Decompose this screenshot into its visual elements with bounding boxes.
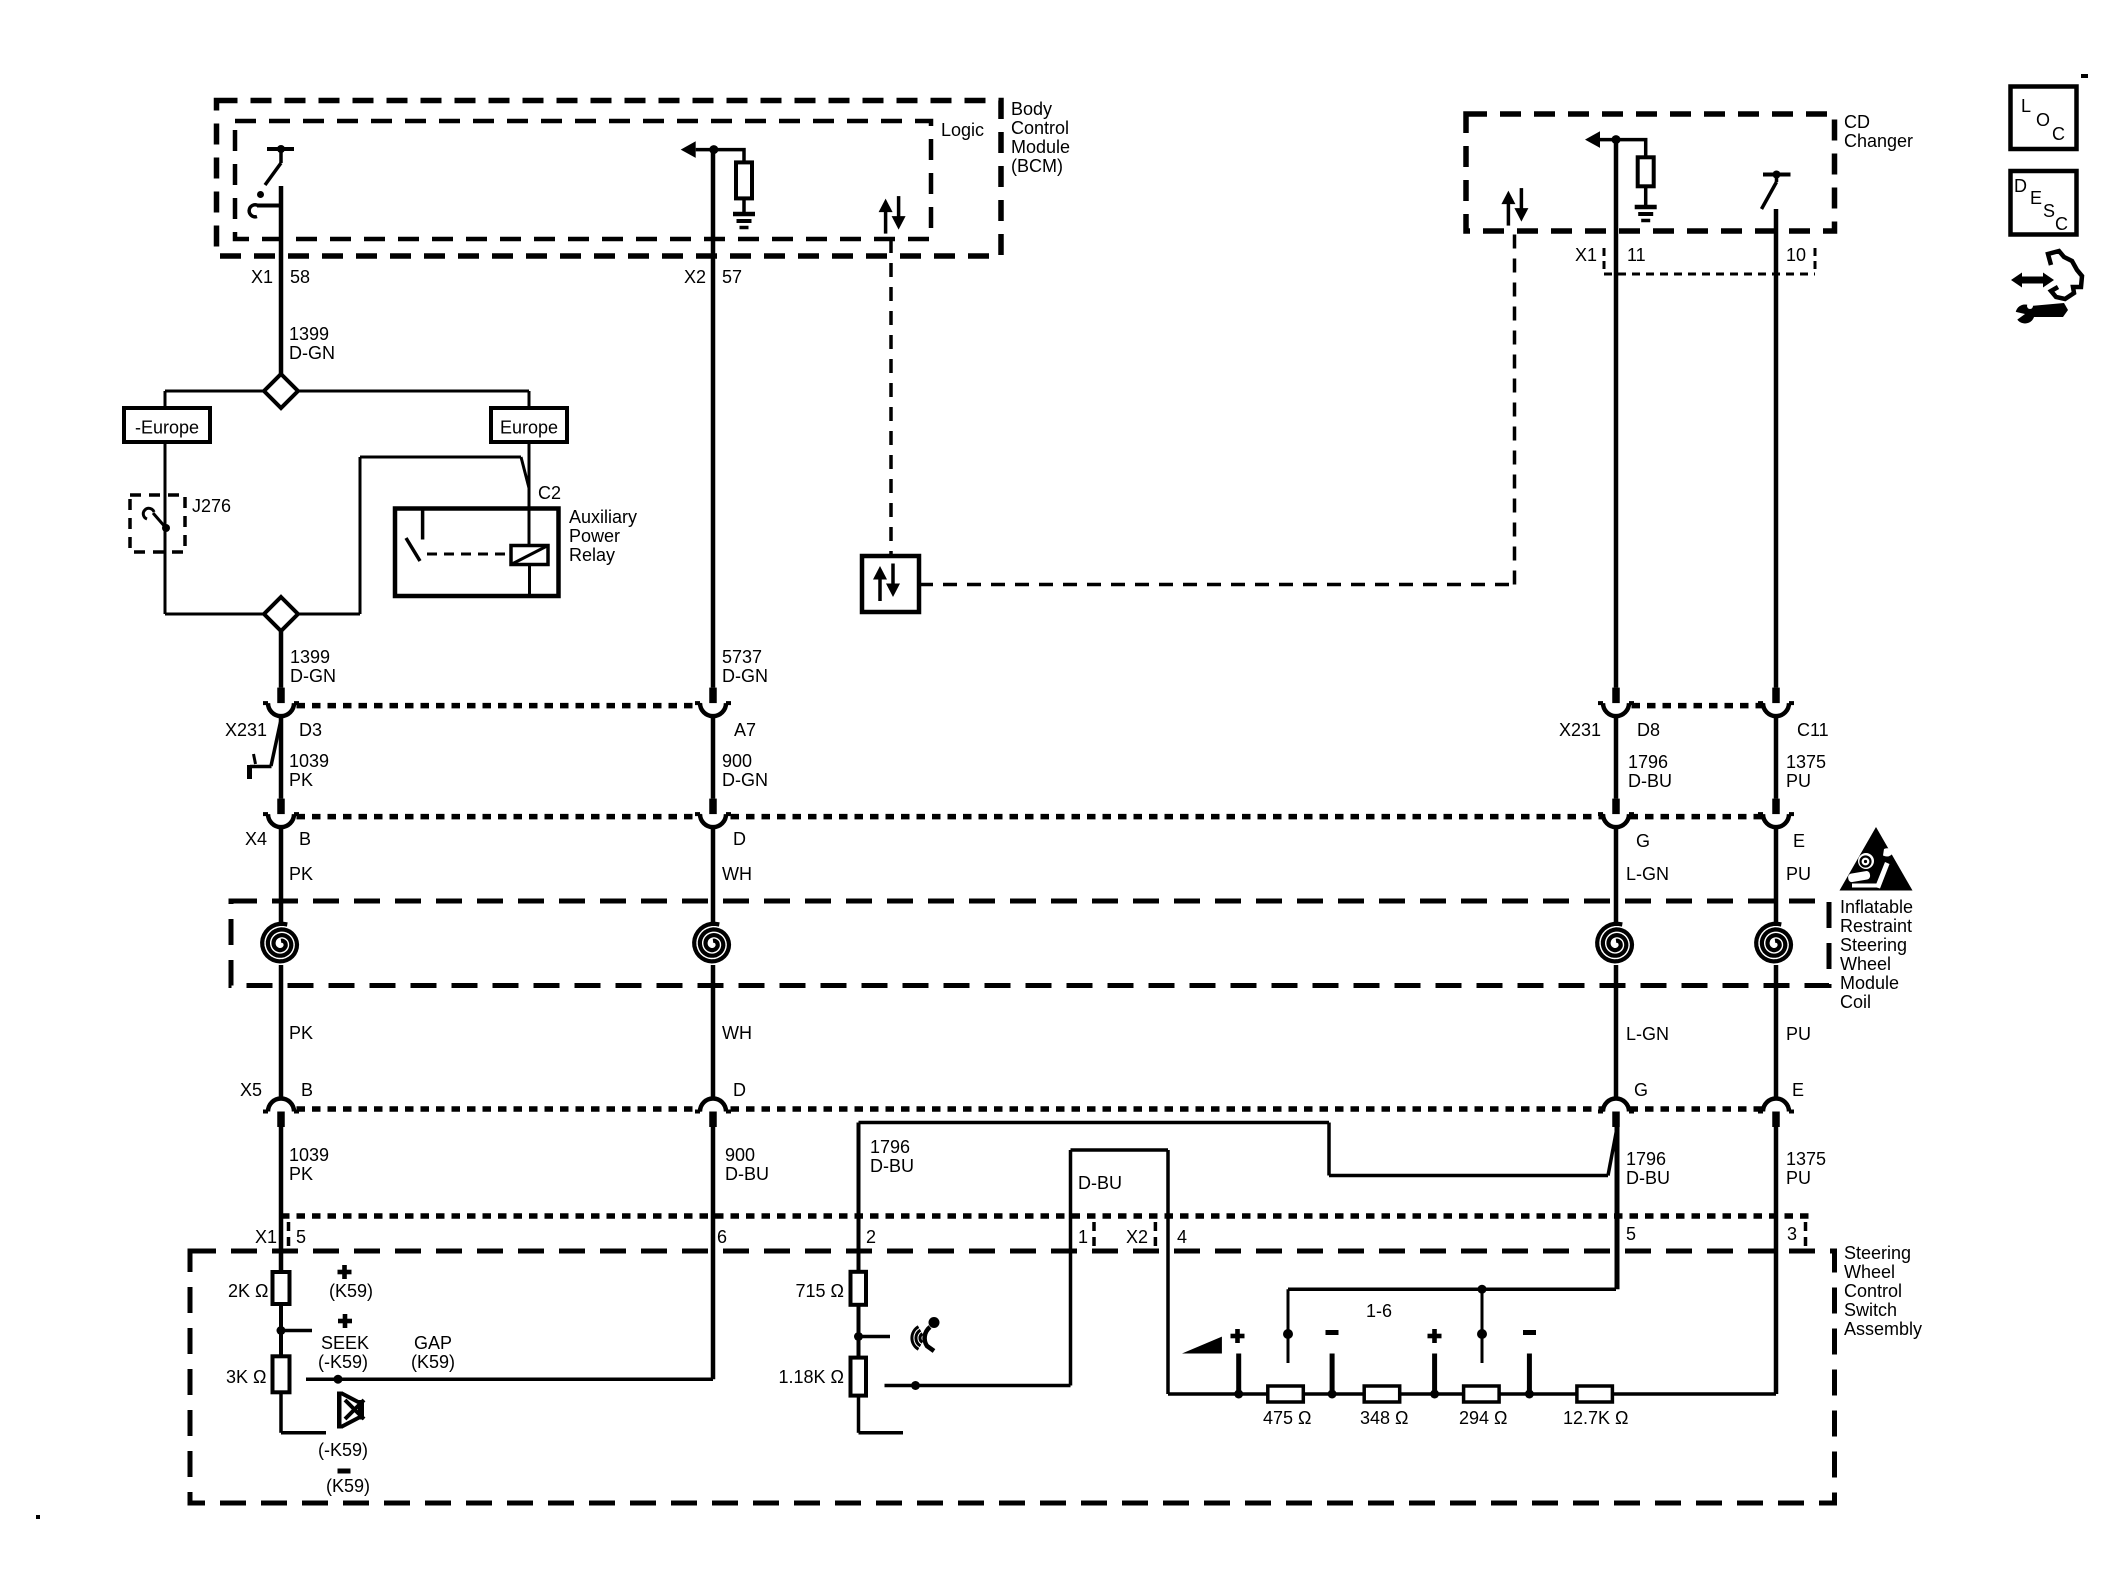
svg-text:(K59): (K59)	[326, 1476, 370, 1496]
svg-text:D-GN: D-GN	[722, 770, 768, 790]
svg-text:PK: PK	[289, 864, 313, 884]
svg-text:E: E	[1792, 1080, 1804, 1100]
svg-text:S: S	[2043, 201, 2055, 221]
svg-text:D-BU: D-BU	[1078, 1173, 1122, 1193]
svg-text:D-GN: D-GN	[289, 343, 335, 363]
svg-text:1399: 1399	[290, 647, 330, 667]
svg-text:L-GN: L-GN	[1626, 1024, 1669, 1044]
svg-text:D-GN: D-GN	[722, 666, 768, 686]
svg-text:Restraint: Restraint	[1840, 916, 1912, 936]
svg-text:5737: 5737	[722, 647, 762, 667]
svg-text:Relay: Relay	[569, 545, 615, 565]
svg-text:Switch: Switch	[1844, 1300, 1897, 1320]
svg-text:PK: PK	[289, 1164, 313, 1184]
svg-text:D-BU: D-BU	[1626, 1168, 1670, 1188]
svg-text:58: 58	[290, 267, 310, 287]
svg-text:12.7K Ω: 12.7K Ω	[1563, 1408, 1629, 1428]
svg-text:G: G	[1634, 1080, 1648, 1100]
svg-text:CD: CD	[1844, 112, 1870, 132]
svg-text:B: B	[301, 1080, 313, 1100]
svg-text:10: 10	[1786, 245, 1806, 265]
svg-text:O: O	[2036, 110, 2050, 130]
svg-text:PU: PU	[1786, 1024, 1811, 1044]
svg-text:D: D	[733, 829, 746, 849]
svg-text:1039: 1039	[289, 1145, 329, 1165]
svg-text:Assembly: Assembly	[1844, 1319, 1922, 1339]
svg-text:(BCM): (BCM)	[1011, 156, 1063, 176]
svg-text:Steering: Steering	[1844, 1243, 1911, 1263]
svg-text:294 Ω: 294 Ω	[1459, 1408, 1508, 1428]
svg-text:Power: Power	[569, 526, 620, 546]
svg-text:1: 1	[1078, 1227, 1088, 1247]
svg-text:C: C	[2055, 214, 2068, 234]
svg-text:5: 5	[1626, 1224, 1636, 1244]
svg-text:-Europe: -Europe	[135, 418, 199, 438]
svg-text:PU: PU	[1786, 864, 1811, 884]
svg-text:1-6: 1-6	[1366, 1301, 1392, 1321]
svg-text:X2: X2	[684, 267, 706, 287]
svg-text:E: E	[1793, 831, 1805, 851]
svg-text:D-BU: D-BU	[725, 1164, 769, 1184]
svg-text:X1: X1	[1575, 245, 1597, 265]
svg-text:SEEK: SEEK	[321, 1333, 369, 1353]
svg-text:3: 3	[1787, 1224, 1797, 1244]
svg-text:475 Ω: 475 Ω	[1263, 1408, 1312, 1428]
svg-text:1399: 1399	[289, 324, 329, 344]
svg-text:C11: C11	[1797, 720, 1829, 740]
svg-text:PK: PK	[289, 1023, 313, 1043]
svg-text:PU: PU	[1786, 1168, 1811, 1188]
svg-text:1796: 1796	[1626, 1149, 1666, 1169]
svg-text:715 Ω: 715 Ω	[796, 1281, 845, 1301]
svg-text:(-K59): (-K59)	[318, 1440, 368, 1460]
svg-text:X1: X1	[251, 267, 273, 287]
svg-text:4: 4	[1177, 1227, 1187, 1247]
svg-text:900: 900	[722, 751, 752, 771]
svg-text:Coil: Coil	[1840, 992, 1871, 1012]
svg-text:Auxiliary: Auxiliary	[569, 507, 637, 527]
svg-text:WH: WH	[722, 1023, 752, 1043]
svg-text:X4: X4	[245, 829, 267, 849]
svg-text:1375: 1375	[1786, 1149, 1826, 1169]
svg-text:Changer: Changer	[1844, 131, 1913, 151]
svg-text:Inflatable: Inflatable	[1840, 897, 1913, 917]
svg-text:900: 900	[725, 1145, 755, 1165]
svg-text:PK: PK	[289, 770, 313, 790]
svg-text:2K Ω: 2K Ω	[228, 1281, 268, 1301]
svg-text:X231: X231	[1559, 720, 1601, 740]
svg-text:1796: 1796	[1628, 752, 1668, 772]
svg-text:1039: 1039	[289, 751, 329, 771]
svg-text:5: 5	[296, 1227, 306, 1247]
svg-text:G: G	[1636, 831, 1650, 851]
svg-text:11: 11	[1627, 245, 1646, 265]
svg-text:Wheel: Wheel	[1844, 1262, 1895, 1282]
svg-text:WH: WH	[722, 864, 752, 884]
svg-text:Steering: Steering	[1840, 935, 1907, 955]
svg-text:B: B	[299, 829, 311, 849]
svg-text:X2: X2	[1126, 1227, 1148, 1247]
svg-text:D3: D3	[299, 720, 322, 740]
svg-text:(K59): (K59)	[411, 1352, 455, 1372]
svg-text:Module: Module	[1840, 973, 1899, 993]
svg-text:Europe: Europe	[500, 418, 558, 438]
svg-text:E: E	[2030, 188, 2042, 208]
svg-text:C2: C2	[538, 483, 561, 503]
svg-text:D-GN: D-GN	[290, 666, 336, 686]
svg-text:J276: J276	[192, 496, 231, 516]
svg-text:X1: X1	[255, 1227, 277, 1247]
svg-text:Wheel: Wheel	[1840, 954, 1891, 974]
svg-text:C: C	[2052, 124, 2065, 144]
svg-text:(K59): (K59)	[329, 1281, 373, 1301]
svg-text:348 Ω: 348 Ω	[1360, 1408, 1409, 1428]
svg-text:X5: X5	[240, 1080, 262, 1100]
svg-text:6: 6	[717, 1227, 727, 1247]
svg-text:PU: PU	[1786, 771, 1811, 791]
svg-text:1.18K Ω: 1.18K Ω	[779, 1367, 845, 1387]
svg-text:Control: Control	[1011, 118, 1069, 138]
svg-text:D8: D8	[1637, 720, 1660, 740]
svg-text:57: 57	[722, 267, 742, 287]
svg-text:D: D	[2014, 176, 2027, 196]
svg-text:GAP: GAP	[414, 1333, 452, 1353]
svg-text:D-BU: D-BU	[870, 1156, 914, 1176]
svg-text:1375: 1375	[1786, 752, 1826, 772]
svg-text:L-GN: L-GN	[1626, 864, 1669, 884]
svg-text:1796: 1796	[870, 1137, 910, 1157]
svg-text:Body: Body	[1011, 99, 1052, 119]
svg-text:D: D	[733, 1080, 746, 1100]
svg-text:(-K59): (-K59)	[318, 1352, 368, 1372]
svg-text:Module: Module	[1011, 137, 1070, 157]
svg-text:3K Ω: 3K Ω	[226, 1367, 266, 1387]
svg-text:D-BU: D-BU	[1628, 771, 1672, 791]
svg-text:Control: Control	[1844, 1281, 1902, 1301]
svg-text:A7: A7	[734, 720, 756, 740]
svg-text:Logic: Logic	[941, 120, 984, 140]
svg-text:X231: X231	[225, 720, 267, 740]
svg-text:2: 2	[866, 1227, 876, 1247]
svg-text:L: L	[2021, 96, 2031, 116]
